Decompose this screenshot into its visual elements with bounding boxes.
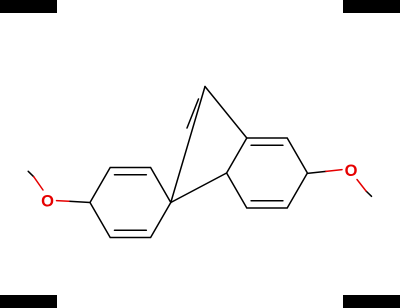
right O-ring bond black half: [307, 171, 326, 173]
benzene ring 1 (left) outline: [90, 168, 171, 238]
ring 2 inner double bond top: [251, 144, 283, 146]
bridge double bond companion line: [187, 99, 199, 128]
right methyl red half: [357, 180, 366, 192]
bridge right leg apex to ring 2 TL: [205, 87, 247, 139]
left methyl black half: [28, 171, 34, 177]
left O-ring bond red half: [57, 200, 69, 203]
left methyl red half: [34, 177, 43, 190]
right O-ring bond red half: [326, 170, 342, 172]
benzene ring 2 (right) outline: [227, 138, 308, 208]
left O-ring bond black half: [69, 201, 90, 202]
bond ring1 R to ring2 L: [171, 173, 227, 203]
svg-text:O: O: [41, 193, 54, 211]
corner patch bottom-left: [0, 295, 57, 308]
ring 2 inner double bond bottom: [251, 200, 283, 202]
corner patch top-right: [343, 0, 400, 13]
corner patch top-left: [0, 0, 57, 13]
bridge straight chain ring1 R vertex to apex: [171, 87, 205, 203]
corner patch bottom-right: [343, 295, 400, 308]
ring 1 inner double bond bottom: [115, 229, 147, 231]
right methyl black half: [366, 191, 372, 196]
svg-text:O: O: [345, 162, 358, 180]
ring 1 inner double bond top: [115, 174, 147, 176]
